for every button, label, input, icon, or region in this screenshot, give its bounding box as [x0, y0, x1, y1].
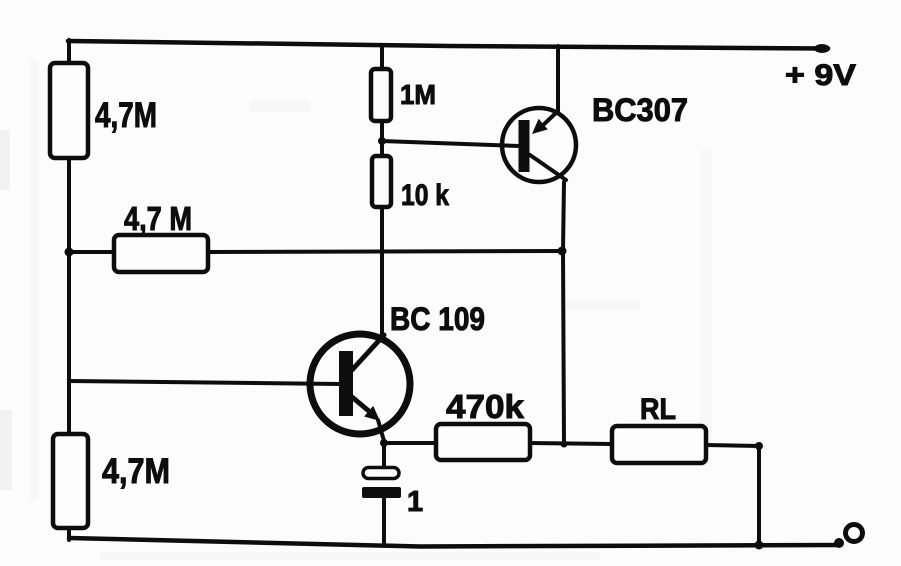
- svg-text:BC307: BC307: [592, 92, 688, 128]
- wire capacitor bottom lead: [382, 498, 386, 546]
- node junction feedback/collector: [558, 247, 567, 256]
- svg-text:1: 1: [407, 486, 423, 518]
- node output terminal dot: [834, 538, 844, 548]
- wire between 1M and 10k: [380, 121, 384, 157]
- node corner dot: [755, 442, 763, 450]
- wire 470k to RL: [530, 443, 612, 444]
- wire capacitor top lead: [382, 443, 386, 468]
- svg-text:10 k: 10 k: [401, 179, 449, 212]
- paper texture: [0, 60, 712, 560]
- node rail end blob: [814, 44, 830, 53]
- wire feedback row left segment: [69, 250, 114, 254]
- wire right vertical down: [757, 446, 761, 545]
- node junction left/4,7M mid: [65, 248, 74, 257]
- resistor 4,7M middle horizontal: [114, 235, 208, 272]
- resistor RL: [612, 426, 706, 463]
- wire feedback row right segment: [208, 251, 562, 252]
- transistor Q1 BC109 (NPN): [310, 334, 410, 434]
- wire collector BC307 down: [563, 182, 564, 444]
- wire base of BC307: [382, 141, 519, 146]
- node junction base of BC307: [378, 137, 386, 145]
- wire emitter BC307 to rail: [556, 46, 560, 110]
- resistor 4,7M bottom-left: [53, 434, 88, 528]
- wire emitter node to 470k: [384, 441, 436, 445]
- svg-text:4,7M: 4,7M: [102, 452, 170, 491]
- wire top +9V rail: [68, 41, 828, 49]
- node junction bottom rail: [755, 541, 764, 550]
- resistor 4,7M top-left: [50, 63, 88, 158]
- capacitor C1 top plate: [363, 468, 399, 479]
- svg-text:470k: 470k: [446, 388, 525, 425]
- svg-text:4,7 M: 4,7 M: [124, 200, 192, 237]
- wire left vertical middle: [67, 158, 71, 434]
- transistor Q2 BC307 (PNP): [502, 108, 576, 182]
- resistor 470k: [436, 424, 530, 460]
- wire center vertical down to BC109: [380, 207, 384, 336]
- resistor 1M: [371, 69, 391, 121]
- wire left vertical top: [67, 40, 71, 64]
- wire base of BC109: [69, 381, 340, 384]
- wire RL to corner: [706, 445, 759, 446]
- resistor 10k: [372, 156, 391, 207]
- svg-text:RL: RL: [640, 393, 676, 426]
- wire center vertical from rail: [380, 46, 384, 70]
- svg-text:4,7M: 4,7M: [95, 96, 157, 135]
- node collector meets output row: [561, 441, 568, 448]
- svg-text:BC 109: BC 109: [390, 301, 485, 337]
- wire bottom rail: [69, 538, 838, 547]
- capacitor C1 bottom plate: [362, 487, 401, 498]
- svg-text:+ 9V: + 9V: [785, 59, 856, 92]
- node output terminal circle: [846, 525, 863, 542]
- node emitter junction: [380, 439, 388, 447]
- wire left vertical bottom: [67, 528, 71, 540]
- svg-text:1M: 1M: [400, 79, 436, 110]
- wire emitter BC109 to node: [378, 420, 384, 441]
